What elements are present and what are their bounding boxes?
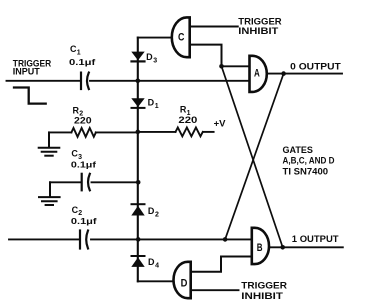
svg-text:1 OUTPUT: 1 OUTPUT [292,234,339,244]
svg-text:D: D [146,52,153,62]
svg-text:B: B [257,242,263,254]
svg-text:INHIBIT: INHIBIT [241,291,283,301]
svg-text:TI SN7400: TI SN7400 [283,166,329,176]
svg-text:220: 220 [74,116,92,126]
svg-text:D: D [181,278,188,290]
svg-text:0.1μf: 0.1μf [71,161,96,170]
svg-text:C: C [178,31,184,43]
svg-text:3: 3 [153,57,157,64]
svg-text:220: 220 [178,115,197,125]
svg-text:4: 4 [155,262,159,269]
svg-text:0.1μf: 0.1μf [71,217,97,226]
svg-text:D: D [148,206,155,216]
svg-text:1: 1 [77,49,81,56]
svg-text:0 OUTPUT: 0 OUTPUT [290,62,341,72]
svg-text:+V: +V [214,118,227,129]
svg-text:GATES: GATES [283,145,313,155]
svg-text:0.1μf: 0.1μf [69,58,96,67]
svg-text:A,B,C, AND D: A,B,C, AND D [283,156,335,166]
svg-text:INPUT: INPUT [13,67,41,77]
svg-text:TRIGGER: TRIGGER [241,281,287,291]
svg-text:D: D [148,257,155,267]
svg-text:D: D [148,98,155,108]
svg-text:A: A [254,68,260,80]
svg-text:INHIBIT: INHIBIT [238,26,279,36]
svg-text:TRIGGER: TRIGGER [238,16,282,26]
svg-text:2: 2 [155,211,159,218]
svg-text:1: 1 [155,103,159,110]
